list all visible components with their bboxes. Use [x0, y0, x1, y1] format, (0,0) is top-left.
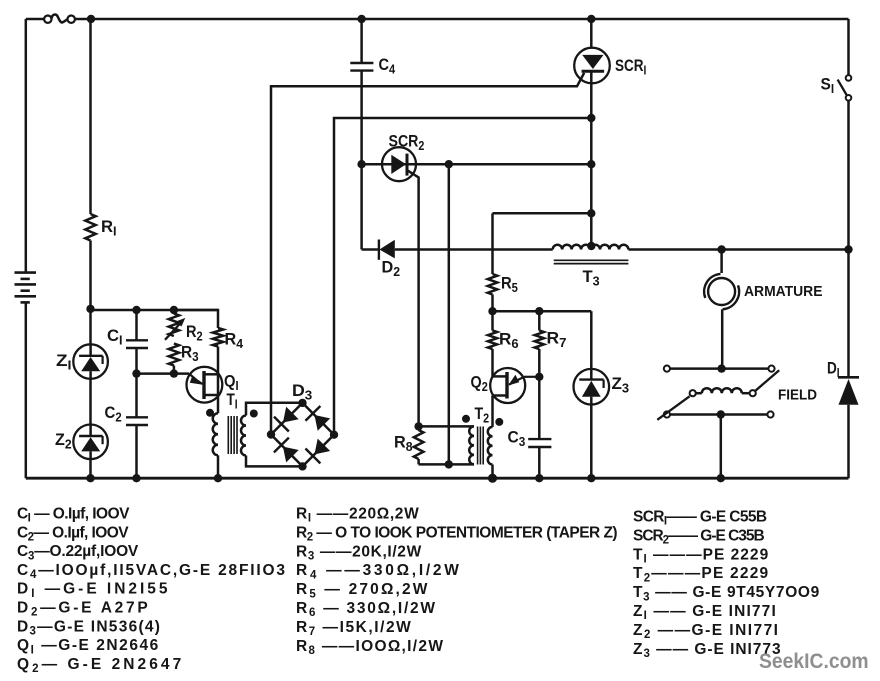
bridge diode D3a (top-left): [274, 407, 299, 432]
transformer T1 primary winding: [213, 413, 218, 455]
node junction R1/Z1/C-row: [86, 305, 94, 313]
wire SCR2 gate: [407, 170, 418, 426]
label R1: [101, 217, 117, 238]
resistor R5: [488, 274, 498, 295]
wire y213 row: [493, 212, 592, 215]
phasing dot T2 secondary: [495, 418, 503, 426]
svg-text:D3: D3: [292, 382, 312, 403]
wire T2 secondary bottom lead: [491, 465, 494, 479]
label R7: [547, 329, 567, 350]
label T2: [475, 405, 490, 426]
node junction T2 bottom row: [445, 460, 453, 468]
svg-text:CI — O.Iµf, IOOV: CI — O.Iµf, IOOV: [17, 506, 130, 525]
label D2: [382, 258, 401, 279]
svg-text:T2: T2: [475, 405, 490, 426]
wire C3 top lead: [538, 377, 541, 439]
bridge diode D3b (bottom-left): [274, 438, 299, 463]
label Z1: [56, 351, 72, 372]
unijunction transistor Q1: [187, 367, 223, 403]
node junction R2 top: [170, 306, 178, 314]
svg-text:TI ———PE 2229: TI ———PE 2229: [633, 546, 769, 565]
label R4: [225, 330, 244, 351]
label D3: [292, 382, 312, 403]
node D3 bottom corner: [298, 462, 306, 470]
unijunction transistor Q2: [490, 368, 539, 403]
svg-text:R3 ——20K,I/2W: R3 ——20K,I/2W: [296, 543, 422, 562]
field switch blade bottom: [657, 396, 689, 420]
node junction right rail at motor row: [844, 245, 852, 253]
fuse F (line cord breaker): [44, 15, 75, 23]
wire right rail upper: [847, 19, 850, 75]
svg-text:Q2: Q2: [471, 374, 489, 395]
wire R1 column: [89, 19, 92, 309]
node D3 right corner: [330, 431, 338, 439]
label Z3: [612, 374, 630, 395]
resistor R4: [213, 328, 223, 347]
wire Z column: [89, 309, 92, 478]
wire R5 top lead: [491, 213, 494, 274]
wire R6 to Q2 base2: [491, 349, 494, 376]
resistor R7: [535, 331, 544, 350]
label R5: [501, 275, 518, 295]
node D3 top corner: [298, 399, 306, 407]
wire T1 secondary bottom to D3 bottom: [246, 456, 303, 467]
svg-text:SeekIC.com: SeekIC.com: [759, 649, 869, 673]
wire D2 row to T3: [362, 248, 553, 251]
capacitor C4: [350, 63, 373, 71]
phasing dot T1 primary: [206, 409, 214, 417]
wire C4 top lead: [360, 19, 363, 63]
resistor R6: [488, 331, 497, 350]
SCR1: [574, 48, 610, 84]
resistor R8: [414, 430, 424, 459]
transformer T2 primary winding: [469, 426, 474, 464]
label ARMATURE: [744, 284, 823, 301]
svg-text:D3—G-E IN536(4): D3—G-E IN536(4): [17, 618, 161, 637]
wire armature top lead: [720, 250, 723, 274]
wire D1 to bus: [847, 405, 850, 478]
svg-text:DI —G-E IN2I55: DI —G-E IN2I55: [17, 581, 170, 600]
diode D2: [379, 240, 395, 260]
node junction field bottom rail: [717, 410, 725, 418]
svg-text:T2———PE 2229: T2———PE 2229: [633, 565, 769, 584]
svg-text:ZI: ZI: [56, 351, 72, 372]
label SCR2: [389, 133, 425, 154]
motor armature M: [704, 274, 739, 309]
wire R8 bottom row: [419, 463, 474, 466]
wire SCR2 cathode column: [448, 164, 451, 464]
diode D1: [838, 377, 859, 405]
svg-text:R4: R4: [225, 330, 244, 351]
phasing dot T1 secondary: [250, 410, 258, 418]
zener Z2: [73, 425, 108, 460]
node junction SCR1 top: [587, 15, 595, 23]
label R6: [499, 330, 519, 351]
svg-text:R5: R5: [501, 275, 518, 295]
node junction field on bus: [717, 474, 725, 482]
label D1: [827, 359, 840, 380]
node junction R7 top: [535, 307, 543, 315]
node junction top of R1 line: [87, 15, 95, 23]
svg-text:RI: RI: [101, 217, 117, 238]
svg-text:R5 — 270Ω,2W: R5 — 270Ω,2W: [296, 581, 430, 600]
bridge rectifier D3 frame: [271, 403, 334, 467]
label T3: [583, 267, 600, 288]
node junction Z2 bottom on bus: [86, 474, 94, 482]
transformer T2 core: [478, 427, 484, 465]
svg-text:CI: CI: [107, 326, 123, 347]
label R8: [394, 433, 413, 454]
transformer T1 core: [228, 416, 237, 454]
phasing dot T2 primary: [462, 415, 470, 423]
wire armature bottom lead: [721, 309, 724, 368]
field switch blade top: [755, 370, 779, 391]
svg-text:R7: R7: [547, 329, 567, 350]
wire mid row: [137, 372, 190, 375]
node junction SCR2 cathode line: [445, 160, 453, 168]
node junction SCR2 anode: [357, 160, 365, 168]
svg-text:C3: C3: [508, 428, 526, 449]
svg-text:SI: SI: [821, 76, 835, 96]
svg-text:SCRI—— G-E C55B: SCRI—— G-E C55B: [633, 509, 767, 528]
label Q1: [224, 373, 239, 393]
label C3: [508, 428, 526, 449]
node junction T1 on bus: [214, 474, 222, 482]
node junction C1 top: [132, 306, 140, 314]
wire C3 bottom lead: [538, 447, 541, 478]
node junction C4 top: [357, 15, 365, 23]
svg-text:R6 — 330Ω,I/2W: R6 — 330Ω,I/2W: [296, 600, 437, 619]
svg-text:T3 —— G-E 9T45Y7OO9: T3 —— G-E 9T45Y7OO9: [633, 584, 820, 603]
wire y310 row: [91, 309, 219, 312]
label R3: [181, 344, 199, 364]
node junction T2 secondary on bus: [488, 474, 497, 483]
svg-text:D2—G-E A27P: D2—G-E A27P: [17, 600, 151, 619]
wire y311 corner down to Z3: [590, 311, 593, 369]
node junction y213 on SCR1 line: [587, 209, 595, 217]
svg-text:R8: R8: [394, 433, 413, 454]
svg-text:R8 ——IOOΩ,I/2W: R8 ——IOOΩ,I/2W: [296, 638, 444, 657]
svg-text:ARMATURE: ARMATURE: [744, 284, 823, 301]
label C4: [379, 56, 396, 76]
svg-text:DI: DI: [827, 359, 840, 380]
wire top rail: [26, 18, 849, 21]
wire SCR1 anode lead: [590, 19, 593, 48]
wire right rail middle: [847, 101, 850, 250]
resistor R3: [169, 344, 179, 366]
wire C4 to SCR2 anode row: [360, 71, 363, 165]
wire R7 to emitter node: [538, 349, 541, 377]
svg-text:C4—IOOµf,II5VAC,G-E 28FIIO3: C4—IOOµf,II5VAC,G-E 28FIIO3: [17, 562, 287, 581]
node junction y118 on SCR1 line: [587, 114, 595, 122]
svg-text:SCR2—— G-E C35B: SCR2—— G-E C35B: [633, 527, 764, 546]
wire C4 column down to D2: [360, 164, 363, 249]
label C1: [107, 326, 123, 347]
label S1: [821, 76, 835, 96]
wire right rail to D1: [847, 250, 850, 378]
transformer T3 core: [554, 260, 629, 263]
capacitor C2: [126, 417, 148, 425]
capacitor C1: [126, 340, 148, 348]
node junction on SCR1 line at SCR2 row: [587, 160, 595, 168]
transformer T1 secondary winding: [241, 416, 246, 456]
svg-text:SCRI: SCRI: [615, 57, 646, 78]
node junction C2 on bus: [132, 474, 140, 482]
label FIELD: [778, 387, 817, 404]
svg-text:SCR2: SCR2: [389, 133, 425, 154]
resistor R1: [85, 214, 95, 241]
wire Q2 base1 down to T2 secondary: [491, 396, 494, 427]
node T3 center tap: [587, 242, 595, 250]
field reversing switch bottom rail: [664, 411, 774, 417]
wire D3 left corner up to SCR1 gate: [271, 73, 584, 435]
node junction Z3 on bus: [587, 474, 595, 482]
node junction mid row left: [132, 369, 140, 377]
wire bottom bus: [26, 477, 849, 480]
svg-text:R6: R6: [499, 330, 519, 351]
node D3 left corner: [267, 430, 275, 438]
potentiometer R2: [165, 314, 185, 340]
capacitor C3: [528, 439, 551, 447]
field reversing switch top rail: [664, 366, 775, 372]
bridge diode D3c (top-right): [305, 406, 330, 431]
label R2: [186, 323, 203, 343]
node junction armature top: [717, 245, 725, 253]
svg-text:D2: D2: [382, 258, 401, 279]
svg-text:T3: T3: [583, 267, 600, 288]
wire C1-C2 link: [135, 348, 138, 417]
svg-text:R7 —I5K,I/2W: R7 —I5K,I/2W: [296, 619, 412, 638]
label C2: [105, 404, 122, 424]
wire C1 top lead: [135, 310, 138, 340]
bridge diode D3d (bottom-right): [305, 439, 330, 464]
zener Z1: [73, 344, 108, 379]
wire R6 top lead: [491, 311, 494, 330]
svg-text:R2: R2: [186, 323, 203, 343]
wire y311 row: [493, 310, 592, 313]
wire T3 to armature junction: [628, 248, 848, 251]
node junction field top rail: [717, 364, 725, 372]
label SCR1: [615, 57, 646, 78]
transformer T2 secondary winding: [488, 427, 493, 465]
svg-text:Q2— G-E 2N2647: Q2— G-E 2N2647: [17, 656, 184, 675]
wire field to bus: [720, 415, 723, 479]
svg-text:QI —G-E 2N2646: QI —G-E 2N2646: [17, 637, 160, 656]
svg-text:C3—O.22µf,IOOV: C3—O.22µf,IOOV: [17, 543, 139, 562]
node junction Q2 emitter / R7 / C3: [535, 373, 543, 381]
svg-text:R2 — O TO IOOK POTENTIOMETER (: R2 — O TO IOOK POTENTIOMETER (TAPER Z): [296, 524, 617, 543]
svg-text:Z2 ——G-E INI77I: Z2 ——G-E INI77I: [633, 622, 779, 641]
svg-text:FIELD: FIELD: [778, 387, 817, 404]
transformer T3 winding: [553, 245, 629, 250]
SCR2: [382, 147, 416, 181]
battery B1: [15, 273, 37, 303]
wire left rail (battery feed): [25, 19, 28, 478]
svg-text:ZI —— G-E INI77I: ZI —— G-E INI77I: [633, 603, 777, 622]
node junction R3 bottom: [170, 369, 178, 377]
watermark SeekIC.com: [759, 649, 869, 673]
field winding FIELD: [690, 388, 756, 396]
zener Z3: [574, 369, 610, 405]
wire R5 bottom lead: [491, 295, 494, 312]
node junction R8 top: [414, 422, 422, 430]
wire R7 top lead: [538, 311, 541, 330]
wire D3 right corner up to y118 row: [334, 118, 591, 435]
svg-text:RI ——220Ω,2W: RI ——220Ω,2W: [296, 506, 419, 525]
wire R3 bottom: [173, 366, 176, 374]
svg-text:R3: R3: [181, 344, 199, 364]
switch S1: [838, 75, 852, 101]
wire R8 stubs: [417, 426, 420, 464]
wire T1 secondary top to D3 top: [246, 403, 303, 416]
label T1: [227, 391, 238, 412]
svg-text:TI: TI: [227, 391, 238, 412]
wire C2 bottom lead: [135, 425, 138, 478]
label Q2: [471, 374, 489, 395]
label Z2: [55, 431, 72, 452]
wire R8 top row: [419, 425, 474, 428]
svg-text:C2: C2: [105, 404, 122, 424]
wire Z3 bottom lead: [590, 397, 593, 478]
svg-text:C4: C4: [379, 56, 396, 76]
svg-text:R4 ——330Ω,I/2W: R4 ——330Ω,I/2W: [296, 562, 462, 581]
wire SCR1 cathode column: [590, 71, 593, 246]
svg-text:Z3: Z3: [612, 374, 630, 395]
node junction C3 on bus: [535, 474, 543, 482]
svg-text:C2— O.Iµf, IOOV: C2— O.Iµf, IOOV: [17, 524, 129, 543]
svg-text:Z2: Z2: [55, 431, 72, 452]
wire SCR2 row: [362, 163, 592, 166]
wire R4 corner: [174, 310, 218, 328]
node junction R5/R6: [488, 307, 496, 315]
wire R4 to T1 primary: [217, 347, 220, 414]
wire T1 primary bottom: [217, 455, 220, 478]
